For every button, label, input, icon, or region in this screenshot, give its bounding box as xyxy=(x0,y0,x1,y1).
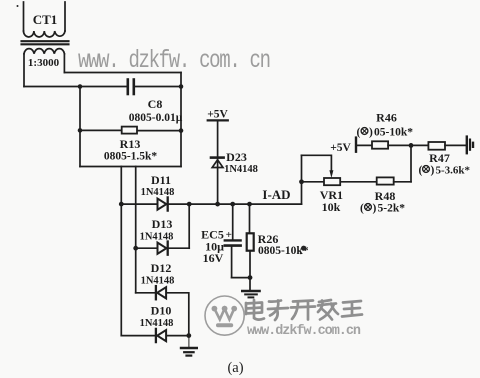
svg-text:CT1: CT1 xyxy=(33,12,58,27)
wire D13 row xyxy=(136,247,190,249)
wire R13 row xyxy=(80,129,181,131)
svg-text:D12: D12 xyxy=(151,261,172,275)
svg-text:16V: 16V xyxy=(203,251,224,265)
watermark www.dzkfw.com.cn bottom xyxy=(247,324,361,339)
node I-AD D23 junction xyxy=(215,202,220,207)
resistor R48 xyxy=(377,177,411,184)
ground main below D10 xyxy=(181,336,197,356)
wire bottom edge of C8/R13 block xyxy=(80,166,181,168)
ground right sideways xyxy=(467,137,473,154)
supply +5V right xyxy=(356,138,372,152)
node R13 right junction xyxy=(179,128,184,133)
svg-text:0805-1.5k*: 0805-1.5k* xyxy=(104,151,158,163)
potentiometer VR1 xyxy=(302,178,377,185)
wire R48 up to R46/R47 junction xyxy=(410,145,412,181)
svg-text:D23: D23 xyxy=(226,150,247,164)
arrow wiper VR1 xyxy=(329,170,333,178)
svg-text:www. dzkfw. com. cn: www. dzkfw. com. cn xyxy=(78,47,271,75)
svg-text:+: + xyxy=(226,229,232,241)
supply +5V mid xyxy=(208,120,228,204)
diode D11 xyxy=(158,197,168,210)
scan speckle blob xyxy=(17,5,307,254)
svg-text:1N4148: 1N4148 xyxy=(141,276,175,287)
svg-text:(a): (a) xyxy=(227,360,243,376)
svg-text:0805-0.01μ: 0805-0.01μ xyxy=(129,112,183,124)
wire D10 row xyxy=(121,335,189,337)
svg-text:www.dzkfw.com.cn: www.dzkfw.com.cn xyxy=(247,324,361,339)
svg-text:+5V: +5V xyxy=(207,109,228,121)
diode D12 xyxy=(156,286,166,299)
node I-AD D13 junction xyxy=(187,202,192,207)
watermark www.dzkfw.com.cn top xyxy=(78,47,271,75)
svg-text:R48: R48 xyxy=(375,189,396,203)
svg-text:): ) xyxy=(373,203,377,215)
transformer CT1 xyxy=(22,2,69,87)
resistor R13 xyxy=(122,127,137,134)
svg-text:1N4148: 1N4148 xyxy=(141,187,175,198)
wire I-AD row xyxy=(121,203,301,205)
svg-text:05-10k*: 05-10k* xyxy=(374,127,413,139)
svg-text:I-AD: I-AD xyxy=(262,187,290,202)
svg-text:1N4148: 1N4148 xyxy=(224,164,258,175)
node VR1 wiper junction xyxy=(299,179,304,184)
watermark logo circle W xyxy=(205,296,244,335)
wire bottom rail from transformer left xyxy=(24,86,181,88)
svg-text:+5V: +5V xyxy=(330,142,351,154)
svg-text:C8: C8 xyxy=(148,97,163,111)
svg-text:D10: D10 xyxy=(151,304,172,318)
svg-text:1N4148: 1N4148 xyxy=(140,318,174,329)
wire I-AD up to VR1 node xyxy=(301,155,303,204)
svg-text:R46: R46 xyxy=(376,111,397,125)
node I-AD EC5 junction xyxy=(230,202,235,207)
wire D13 right vertical to I-AD xyxy=(188,204,190,248)
wire D12 row and right drop xyxy=(136,293,189,336)
node I-AD R26 junction xyxy=(247,202,252,207)
svg-text:R47: R47 xyxy=(429,151,450,165)
wire left bus drop A xyxy=(120,167,122,336)
node R46 R47 R48 junction xyxy=(409,143,414,148)
svg-text:5-2k*: 5-2k* xyxy=(378,203,406,215)
resistor R47 xyxy=(428,142,465,150)
node I-AD bus left junction xyxy=(119,202,124,207)
svg-text:D13: D13 xyxy=(152,217,173,231)
svg-text:): ) xyxy=(369,127,373,139)
svg-text:D11: D11 xyxy=(151,173,171,187)
ground below R26 xyxy=(242,291,259,297)
diode D13 xyxy=(158,242,168,255)
wire right vertical of C8/R13 block xyxy=(180,73,182,167)
wire wiper loop top xyxy=(302,155,332,171)
svg-text:5-3.6k*: 5-3.6k* xyxy=(436,165,471,177)
label (x)5-3.6k* xyxy=(419,165,471,177)
resistor R26 xyxy=(247,204,254,290)
svg-text:10k: 10k xyxy=(322,200,341,214)
resistor R46 xyxy=(372,141,428,148)
svg-text:): ) xyxy=(431,165,435,177)
svg-text:R26: R26 xyxy=(258,232,279,246)
svg-text:0805-10k*: 0805-10k* xyxy=(258,245,309,257)
watermark chinese 电子开发王 xyxy=(246,300,362,320)
node R13 left junction xyxy=(78,128,83,133)
node D13 left junction xyxy=(133,246,138,251)
svg-text:R13: R13 xyxy=(120,137,141,151)
svg-text:1N4148: 1N4148 xyxy=(140,232,174,243)
diode D10 xyxy=(156,329,166,342)
node C8 right junction xyxy=(179,84,184,89)
node EC5 R26 ground junction xyxy=(248,275,253,280)
svg-text:(: ( xyxy=(419,165,423,177)
diode D23 xyxy=(211,158,224,168)
svg-text:1:3000: 1:3000 xyxy=(28,57,60,69)
label (x)5-2k* xyxy=(360,203,405,215)
svg-text:(: ( xyxy=(357,127,361,139)
node D10 ground junction xyxy=(186,333,191,338)
svg-text:(: ( xyxy=(360,203,364,215)
node C8 left junction xyxy=(78,84,83,89)
label (x)05-10k* xyxy=(357,127,414,139)
wire drop B to D13/D12 xyxy=(135,167,137,293)
capacitor C8 xyxy=(128,80,134,95)
wire top rail from transformer to right vertical xyxy=(64,72,181,74)
wire left vertical of C8/R13 block xyxy=(79,87,81,167)
capacitor EC5 xyxy=(225,204,250,278)
